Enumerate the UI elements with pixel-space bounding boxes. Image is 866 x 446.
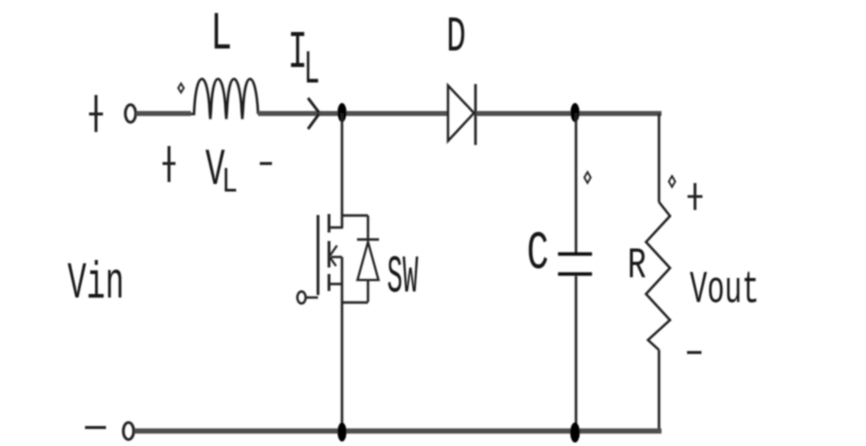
input terminal top (open circle) bbox=[125, 105, 135, 123]
gate lead wire bbox=[306, 296, 318, 298]
right branch vertical wire top bbox=[658, 114, 661, 203]
wire to body diode top bbox=[342, 214, 368, 217]
polarity dot (capacitor) bbox=[584, 172, 590, 183]
svg-text:R: R bbox=[628, 242, 647, 292]
node C (junction bottom of switch) bbox=[338, 423, 347, 442]
svg-text:L: L bbox=[304, 44, 320, 97]
capacitor C plates bbox=[558, 252, 592, 256]
wire top rail left segment bbox=[136, 111, 191, 116]
MOSFET source tap bbox=[330, 283, 342, 286]
MOSFET source/body vertical bbox=[341, 257, 344, 431]
label + of VL bbox=[163, 146, 176, 182]
MOSFET channel segments bbox=[328, 214, 331, 291]
diode D bbox=[448, 86, 474, 142]
body diode triangle bbox=[358, 242, 379, 280]
input terminal bottom (open circle) bbox=[123, 423, 133, 440]
svg-text:L: L bbox=[211, 4, 233, 65]
node B (junction top of capacitor) bbox=[571, 103, 580, 122]
polarity dot (inductor) bbox=[178, 84, 184, 93]
label - of VL bbox=[260, 162, 272, 165]
current arrow IL bbox=[308, 98, 319, 129]
svg-text:L: L bbox=[222, 163, 238, 202]
inductor L bbox=[191, 79, 258, 119]
MOSFET SW : drain wire bbox=[341, 113, 344, 228]
capacitor bottom wire bbox=[575, 276, 578, 431]
MOSFET body tap with arrow bbox=[331, 256, 342, 258]
gate terminal (open circle) bbox=[297, 292, 305, 304]
bottom rail wire bbox=[135, 428, 662, 433]
wire body diode to source bbox=[342, 301, 368, 303]
label + of Vout bbox=[688, 183, 703, 210]
node D (junction bottom of capacitor) bbox=[570, 423, 580, 443]
resistor bottom wire bbox=[658, 350, 661, 431]
svg-text:D: D bbox=[446, 9, 466, 66]
svg-text:C: C bbox=[527, 224, 549, 285]
MOSFET drain tap bbox=[329, 226, 343, 229]
plus sign (input +) bbox=[89, 95, 103, 132]
wire top rail right segment bbox=[476, 111, 662, 116]
MOSFET gate bar bbox=[317, 215, 320, 295]
minus sign (input -) bbox=[85, 426, 106, 429]
body diode cathode lead bbox=[367, 216, 369, 241]
svg-text:Vout: Vout bbox=[690, 265, 760, 316]
svg-text:Vin: Vin bbox=[68, 254, 125, 313]
body diode anode lead bbox=[367, 280, 369, 302]
body diode cathode bar bbox=[357, 238, 379, 241]
resistor R zigzag bbox=[646, 202, 670, 350]
polarity dot (R) bbox=[669, 176, 675, 187]
svg-text:SW: SW bbox=[387, 247, 419, 308]
node A (junction top of switch) bbox=[338, 103, 347, 122]
capacitor top wire bbox=[575, 113, 578, 253]
label - of Vout bbox=[687, 351, 702, 354]
wire top rail middle segment bbox=[258, 111, 448, 116]
